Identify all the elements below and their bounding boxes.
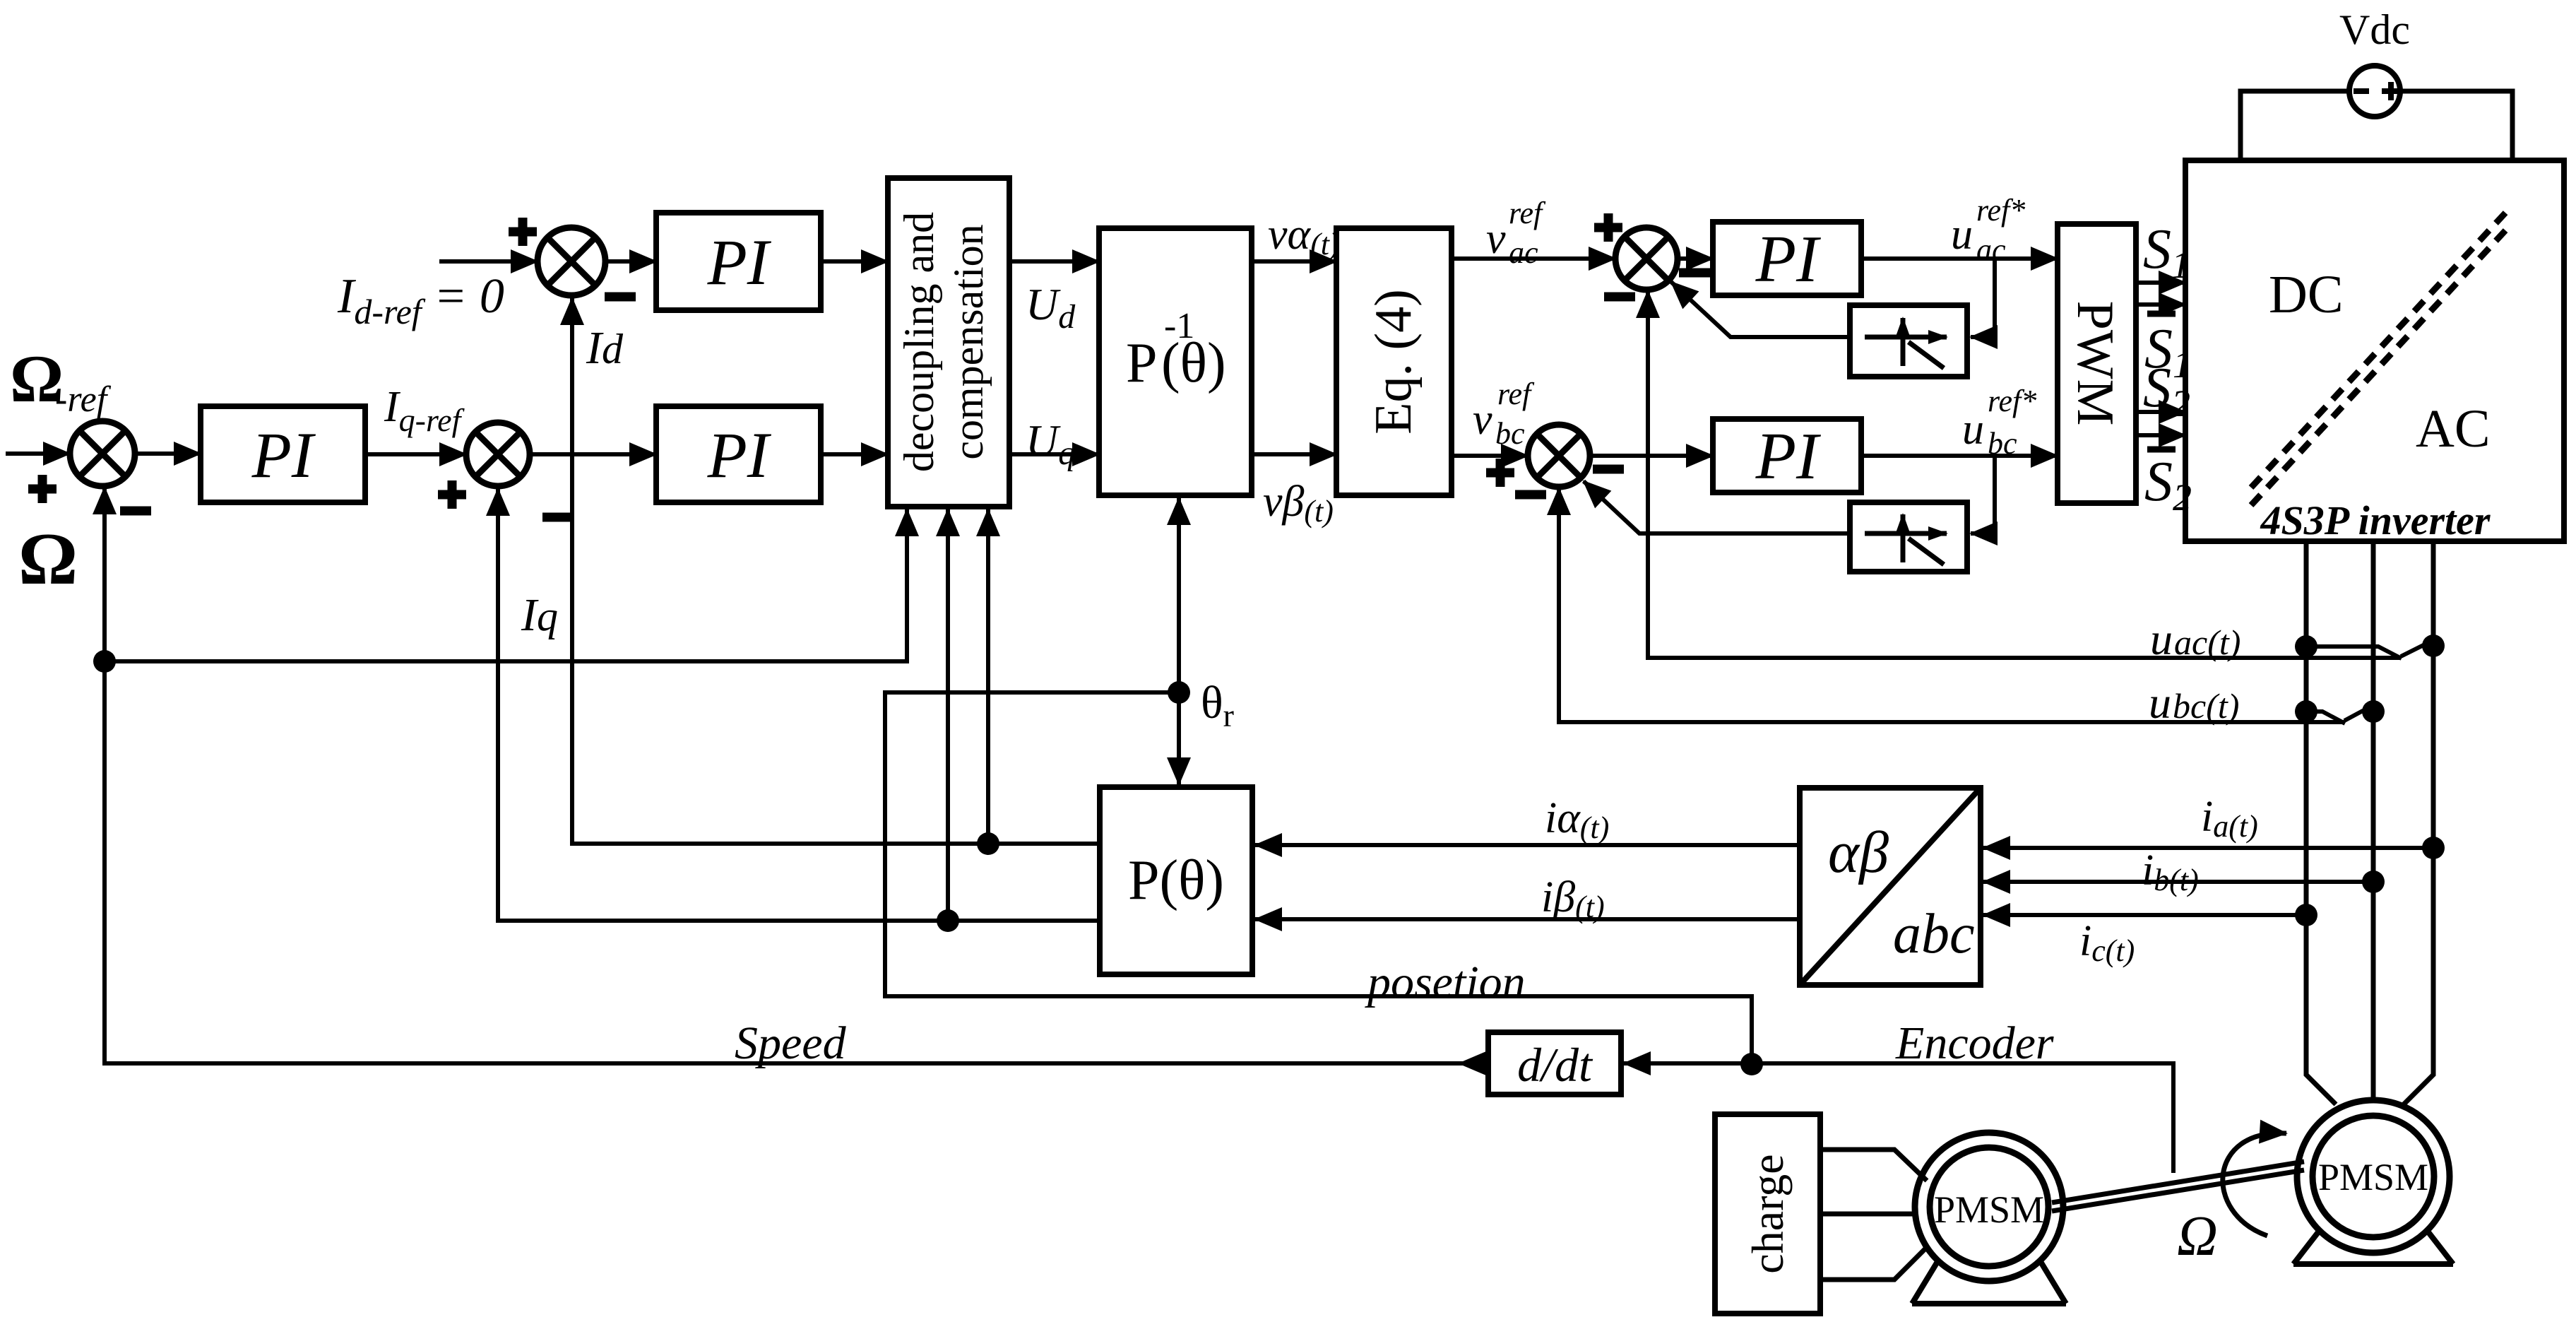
wire i-alpha into P(theta)	[1255, 843, 1800, 847]
label vac-ref	[1486, 196, 1546, 270]
wire Vdc left to inverter top	[2240, 91, 2349, 160]
svg-text:Speed: Speed	[735, 1017, 847, 1069]
wire i-beta into P(theta)	[1255, 917, 1800, 921]
node Id-ref input wire	[439, 259, 538, 264]
svg-text:u: u	[1951, 211, 1973, 259]
junction dot ubc wire2	[2362, 700, 2385, 723]
block P(theta) Park transform	[1100, 787, 1252, 974]
svg-text:u: u	[1962, 406, 1984, 454]
wire PWM out S1bar	[2136, 302, 2185, 307]
svg-text:P: P	[1126, 332, 1158, 394]
sign minus at S2	[120, 507, 151, 516]
label uac(t)	[2150, 614, 2240, 664]
decoupling and compensation block	[888, 178, 1009, 507]
svg-text:bc: bc	[1495, 416, 1525, 451]
wire Ud	[1009, 259, 1099, 264]
svg-text:u: u	[2150, 614, 2173, 664]
wire inverter output phase c	[2404, 541, 2433, 1104]
overbar of S2bar label	[2147, 447, 2176, 453]
svg-text:ref*: ref*	[1976, 193, 2025, 228]
label ubc(t)	[2149, 678, 2239, 728]
ubc tap blade right	[2344, 711, 2370, 721]
svg-text:bc(t): bc(t)	[2173, 686, 2239, 726]
svg-text:AC: AC	[2416, 399, 2491, 459]
sign minus right of S5	[1593, 465, 1624, 474]
label uac-ref*	[1951, 193, 2025, 267]
svg-text:compensation: compensation	[945, 224, 992, 459]
motor PMSM right inner circle	[2313, 1116, 2434, 1237]
block Eq. (4)	[1336, 228, 1452, 495]
svg-text:PI: PI	[707, 226, 772, 298]
svg-text:(θ): (θ)	[1161, 332, 1226, 394]
svg-text:Iq: Iq	[521, 589, 558, 641]
summing junction S5 (vbc loop)	[1528, 425, 1590, 487]
PI block (speed controller)	[201, 406, 365, 502]
junction dot theta-r	[1168, 681, 1190, 704]
limiter 2 icon	[1865, 514, 1947, 565]
wire S4 to PI ac	[1678, 256, 1713, 261]
svg-text:Encoder: Encoder	[1895, 1017, 2054, 1069]
svg-text:ac(t): ac(t)	[2174, 622, 2240, 662]
shaft coupling upper line	[2052, 1162, 2304, 1203]
wire Uq	[1009, 452, 1099, 456]
wire theta-r up into P^-1	[1177, 498, 1181, 692]
node Omega-ref input wire	[6, 452, 70, 456]
svg-text:PWM: PWM	[2066, 301, 2124, 426]
svg-text:u: u	[2149, 678, 2171, 728]
wire Iq branch to decoupling (middle bottom arrow)	[946, 509, 950, 921]
svg-text:posetion: posetion	[1365, 957, 1526, 1008]
wire branch into limiter 1	[1971, 259, 1995, 337]
d/dt block	[1488, 1032, 1621, 1094]
inverter dashed diagonal 1	[2251, 211, 2507, 488]
uac tap blade left	[2306, 647, 2402, 659]
svg-text:Id: Id	[586, 322, 624, 374]
svg-text:ac: ac	[1509, 235, 1538, 270]
label P^-1(theta)	[1126, 306, 1226, 394]
wire charge to motor bottom	[1820, 1247, 1927, 1280]
uac tap blade right	[2401, 645, 2432, 656]
wire Iq-ref: PI speed to S3	[365, 452, 466, 456]
svg-text:-ref: -ref	[55, 379, 112, 420]
junction dot Id branch	[977, 832, 999, 855]
Vdc source circle	[2349, 66, 2400, 117]
wire PI Iq to decoupling block	[821, 452, 888, 456]
alpha-beta block diagonal	[1800, 788, 1981, 985]
junction dot on speed feedback	[93, 650, 116, 673]
wire ib(t) into alpha-beta block	[1983, 880, 2373, 884]
summing junction S2 (speed error)	[70, 421, 135, 486]
wire PWM out S2bar	[2136, 433, 2185, 437]
ubc tap blade left	[2306, 712, 2345, 724]
wire v-alpha	[1252, 259, 1336, 264]
Vdc plus sign	[2382, 82, 2400, 100]
wire S5 to PI bc	[1590, 454, 1713, 458]
svg-text:PI: PI	[1755, 420, 1821, 493]
wire PWM out S1	[2136, 281, 2185, 285]
svg-text:PMSM: PMSM	[1934, 1188, 2044, 1231]
svg-text:PI: PI	[251, 419, 316, 491]
wire Eq4 to S5	[1452, 454, 1528, 458]
junction dot ib on wire2	[2362, 870, 2385, 893]
svg-text:v: v	[1473, 396, 1492, 444]
label vbc-ref	[1473, 377, 1535, 451]
svg-text:Ω: Ω	[2177, 1205, 2218, 1268]
wire uac-ref* to PWM	[1861, 256, 2058, 261]
junction dot encoder/position	[1740, 1053, 1763, 1075]
summing junction S3 (Iq error)	[466, 423, 530, 486]
arrowhead speed out of d/dt	[1459, 1061, 1488, 1066]
Vdc minus lead	[2354, 88, 2369, 94]
sign plus at S3	[438, 480, 466, 509]
svg-text:4S3P inverter: 4S3P inverter	[2260, 497, 2491, 543]
block P^-1(theta) inverse Park	[1099, 228, 1252, 495]
svg-text:v: v	[1486, 215, 1506, 263]
svg-text:charge: charge	[1743, 1154, 1793, 1273]
svg-text:abc: abc	[1893, 903, 1975, 965]
motor PMSM left (load) outer circle	[1915, 1133, 2063, 1281]
wire speed feedback: Speed line up to S2	[105, 488, 1488, 1063]
svg-text:Vdc: Vdc	[2339, 6, 2410, 53]
svg-text:DC: DC	[2269, 265, 2344, 324]
wire inverter output phase b	[2371, 541, 2376, 1100]
svg-text:Ω: Ω	[18, 517, 78, 600]
PI block (Iq controller)	[656, 406, 821, 502]
wire charge to motor middle	[1820, 1212, 1916, 1217]
wire S3 to PI Iq	[530, 452, 656, 456]
wire Iq feedback: P(theta) out to S3	[498, 489, 1100, 921]
wire Id feedback: P(theta) out to S1	[572, 298, 1100, 844]
limiter block 2	[1850, 502, 1967, 572]
svg-text:PI: PI	[707, 419, 772, 491]
svg-text:ref: ref	[1497, 377, 1535, 411]
svg-text:P(θ): P(θ)	[1128, 849, 1224, 911]
wire ubc-ref* to PWM	[1861, 454, 2058, 458]
svg-text:ref*: ref*	[1988, 384, 2036, 418]
svg-text:PI: PI	[1755, 223, 1821, 296]
limiter 1 icon	[1865, 318, 1947, 368]
svg-text:d/dt: d/dt	[1517, 1038, 1593, 1092]
svg-text:ac: ac	[1976, 232, 2006, 267]
label decoupling and compensation	[896, 212, 992, 472]
motor PMSM right outer circle	[2297, 1100, 2450, 1253]
wire branch into limiter 2	[1971, 456, 1995, 533]
sign minus below S4	[1604, 293, 1635, 302]
junction dot ubc wire1	[2295, 700, 2317, 723]
junction dot ia on wire3	[2422, 837, 2445, 859]
label ubc-ref*	[1962, 384, 2036, 461]
sign minus at S1	[605, 293, 636, 302]
overbar of S1bar label	[2147, 311, 2176, 317]
wire v-beta	[1252, 452, 1336, 456]
summing junction S4 (vac loop)	[1615, 228, 1678, 290]
charge block	[1715, 1114, 1820, 1314]
wire omega to decoupling (left bottom arrow)	[105, 509, 907, 661]
motor PMSM right feet	[2293, 1229, 2453, 1264]
junction dot uac wire3	[2422, 635, 2445, 657]
wire Eq4 to S4	[1452, 256, 1615, 261]
shaft coupling lower line	[2052, 1170, 2304, 1211]
junction dot Iq branch	[937, 909, 959, 932]
wire position to theta-r branch	[885, 692, 1752, 1064]
sign plus at S5	[1486, 459, 1514, 487]
wire uac(t) feedback to S4	[1648, 291, 2401, 658]
wire ubc(t) feedback to S5	[1559, 488, 2344, 722]
sign plus at S2	[28, 475, 57, 503]
wire PWM out S2	[2136, 410, 2185, 414]
junction dot ic on wire1	[2295, 904, 2317, 926]
wire Vdc right to inverter top	[2400, 91, 2512, 160]
summing junction S1 (Id error)	[538, 228, 605, 295]
sign minus below S5	[1515, 490, 1546, 500]
wire limiter 1 feedback to S4	[1671, 282, 1850, 337]
wire theta-r down into P(theta)	[1177, 692, 1181, 784]
svg-text:Eq. (4): Eq. (4)	[1365, 289, 1423, 435]
wire encoder line to d/dt input	[1624, 1061, 1752, 1066]
wire charge to motor top	[1820, 1150, 1927, 1181]
svg-text:PMSM: PMSM	[2318, 1156, 2428, 1198]
block alpha-beta / abc transform	[1800, 788, 1981, 985]
wire ia(t) into alpha-beta block	[1983, 846, 2433, 850]
motor PMSM left feet	[1912, 1261, 2066, 1304]
sign minus right of S4	[1679, 268, 1710, 278]
wire Id branch to decoupling (right bottom arrow)	[986, 509, 990, 844]
omega rotation arrow	[2223, 1133, 2286, 1236]
wire ic(t) into alpha-beta block	[1983, 913, 2306, 917]
svg-text:bc: bc	[1988, 426, 2017, 461]
wire S1 to PI Id	[605, 259, 656, 264]
sign plus at S1	[509, 218, 537, 246]
wire limiter 2 feedback to S5	[1584, 481, 1850, 533]
svg-text:ref: ref	[1509, 196, 1546, 230]
svg-text:αβ: αβ	[1828, 820, 1889, 885]
sign minus at S3	[542, 513, 574, 522]
PI block (Id controller)	[656, 213, 821, 310]
junction dot uac wire1	[2295, 635, 2317, 658]
PWM block	[2058, 224, 2136, 503]
inverter dashed diagonal 2	[2251, 228, 2507, 505]
PI block (ubc controller)	[1713, 419, 1861, 492]
4S3P inverter block	[2185, 160, 2564, 541]
sign plus at S4	[1594, 213, 1622, 242]
motor PMSM left inner circle	[1930, 1147, 2048, 1266]
PI block (uac controller)	[1713, 222, 1861, 295]
wire encoder horizontal	[1752, 1063, 2173, 1173]
wire inverter output phase a	[2306, 541, 2336, 1104]
limiter block 1	[1850, 305, 1967, 377]
wire PI Id to decoupling block	[821, 259, 888, 264]
wire S2 to PI speed	[135, 452, 201, 456]
svg-text:decoupling and: decoupling and	[896, 212, 942, 472]
